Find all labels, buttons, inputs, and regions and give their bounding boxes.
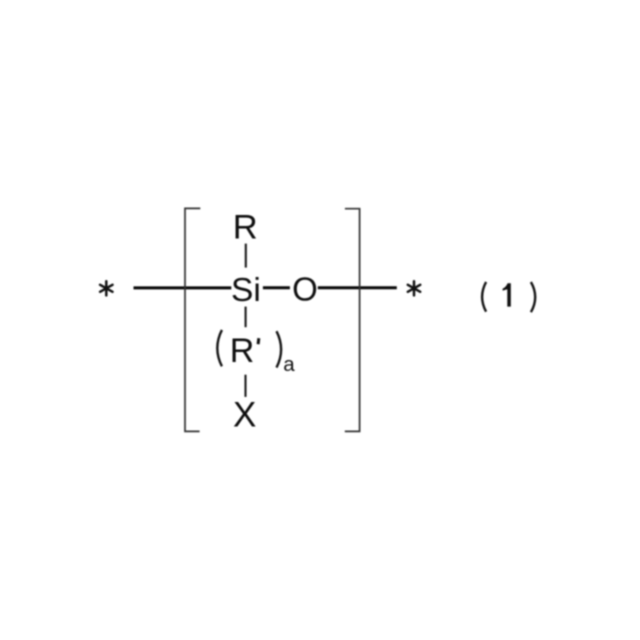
bond R-Si [245, 244, 247, 268]
svg-text:Si: Si [231, 272, 261, 309]
svg-text:O: O [292, 271, 318, 308]
bond R'-X [244, 375, 246, 397]
wire: backbone bond right [318, 286, 397, 289]
svg-text:R: R [233, 208, 258, 246]
substituent label R' [230, 332, 259, 370]
svg-text:X: X [233, 396, 256, 435]
parenthesis right of (R')a [277, 331, 282, 367]
formula number (1) [482, 282, 535, 312]
left terminal asterisk [100, 281, 112, 295]
svg-text:R: R [230, 332, 255, 370]
parenthesis left of (R')a [217, 330, 222, 366]
right bracket [345, 209, 360, 432]
bond Si-O [263, 286, 290, 289]
right terminal asterisk [408, 281, 420, 295]
bond Si-R' [245, 307, 247, 328]
left bracket [185, 208, 200, 431]
wire: backbone bond left [134, 286, 232, 289]
svg-text:a: a [283, 353, 295, 376]
